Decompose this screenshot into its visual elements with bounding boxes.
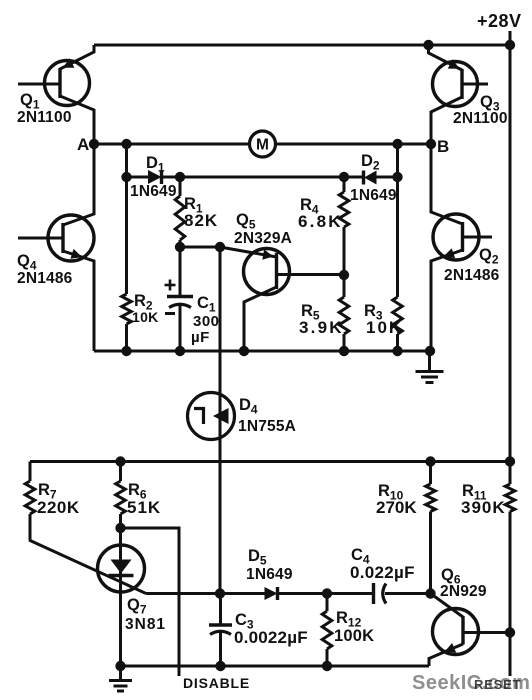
svg-text:2N929: 2N929	[440, 583, 487, 600]
label 1N755A	[238, 418, 296, 435]
junction: Q5 base / R4-R5 node	[339, 270, 349, 280]
resistor R2	[122, 294, 132, 351]
svg-text:300: 300	[193, 313, 220, 330]
label R10	[378, 482, 404, 503]
junction: node B	[426, 139, 436, 149]
svg-text:2N1100: 2N1100	[453, 110, 508, 127]
wire: top +28V rail	[94, 44, 510, 47]
resistor R4	[339, 177, 349, 275]
wire: bottom rail	[121, 665, 430, 668]
svg-text:2N1100: 2N1100	[17, 109, 72, 126]
svg-text:3.9K: 3.9K	[299, 318, 344, 337]
label 6.8K	[298, 212, 343, 231]
wire: diode line middle	[180, 176, 344, 179]
wire: A to motor	[94, 143, 250, 146]
svg-text:270K: 270K	[376, 498, 417, 517]
svg-text:D1: D1	[146, 154, 165, 175]
svg-text:2N1486: 2N1486	[444, 267, 500, 284]
junction: rail meets +28V rail	[505, 456, 515, 466]
label 2N1486 (Q4)	[17, 270, 73, 287]
wire: right +28V rail	[509, 45, 512, 462]
label R3	[364, 302, 383, 323]
resistor R1	[175, 177, 185, 247]
label Q4	[17, 252, 37, 273]
resistor R5	[339, 275, 349, 351]
svg-text:2N329A: 2N329A	[234, 230, 292, 247]
diode D1	[127, 170, 181, 184]
svg-text:RESET: RESET	[474, 677, 521, 692]
label R2	[134, 292, 153, 313]
label R5	[301, 302, 320, 323]
junction: +28V rail corner	[505, 40, 515, 50]
label R4	[300, 196, 319, 217]
capacitor C3	[209, 594, 232, 667]
label R12	[336, 609, 362, 630]
label 0.022uF	[350, 563, 415, 582]
junction: R5 at ground rail	[339, 346, 349, 356]
svg-text:Q2: Q2	[479, 246, 499, 267]
svg-text:D5: D5	[248, 547, 267, 568]
resistor R10	[426, 462, 436, 594]
svg-text:0.0022µF: 0.0022µF	[234, 628, 308, 647]
label 3N81	[125, 616, 166, 633]
transistor Q6	[429, 594, 510, 667]
svg-text:C1: C1	[197, 294, 216, 315]
label R1	[184, 195, 203, 216]
transistor Q1	[18, 45, 94, 144]
zener diode D4	[188, 393, 235, 440]
label R11	[462, 482, 487, 503]
junction: D4 / C3 / D5 node	[215, 588, 225, 598]
junction: D5 / R12 / C4 node	[322, 588, 332, 598]
label 1N649 (D5)	[246, 566, 293, 583]
svg-text:1N755A: 1N755A	[238, 418, 296, 435]
junction: D2/R3 column at B line	[392, 139, 402, 149]
label 51K	[127, 498, 161, 517]
label 82K	[184, 211, 218, 230]
wire: motor to B	[275, 143, 431, 146]
wire: right rail to RESET	[509, 512, 512, 677]
wire: lower section top rail	[30, 460, 510, 463]
svg-text:D4: D4	[239, 396, 258, 417]
svg-text:82K: 82K	[184, 211, 218, 230]
junction: D1 anode	[121, 172, 131, 182]
transistor Q3	[429, 45, 489, 144]
label D2	[361, 152, 380, 173]
junction: Q5 collector at ground rail	[239, 346, 249, 356]
junction: node A	[89, 139, 99, 149]
label Q2	[479, 246, 499, 267]
svg-text:µF: µF	[191, 329, 210, 346]
svg-text:Q5: Q5	[236, 211, 256, 232]
wire: DISABLE branch	[121, 528, 180, 676]
label Q3	[480, 93, 500, 114]
label DISABLE	[183, 675, 250, 691]
svg-text:DISABLE: DISABLE	[183, 675, 250, 691]
motor M	[250, 131, 276, 157]
label RESET	[474, 677, 521, 692]
capacitor C1	[165, 247, 194, 351]
svg-text:+28V: +28V	[477, 11, 522, 31]
junction: R4 top	[339, 172, 349, 182]
wire: upper ground rail	[94, 350, 430, 353]
junction: D1/R2 column at A line	[121, 139, 131, 149]
svg-text:10K: 10K	[366, 318, 403, 337]
svg-text:0.022µF: 0.022µF	[350, 563, 415, 582]
+28V terminal stub	[509, 31, 512, 45]
svg-text:B: B	[437, 137, 449, 156]
junction: C4 / R10 / Q6 base node	[425, 588, 435, 598]
wire: D1/R2 column	[125, 144, 128, 294]
junction: R12 bottom at rail	[322, 661, 332, 671]
label D5	[248, 547, 267, 568]
svg-text:2N1486: 2N1486	[17, 270, 73, 287]
label C1	[197, 294, 216, 315]
wire: D2/R3 column	[396, 144, 399, 297]
diode D2	[344, 171, 398, 185]
watermark SeekIC.com	[412, 672, 530, 694]
transistor Q7	[29, 528, 146, 666]
label 270K	[376, 498, 417, 517]
svg-text:390K: 390K	[461, 498, 506, 517]
node A label	[77, 135, 89, 154]
label 2N329A	[234, 230, 292, 247]
junction: C1 at ground rail	[175, 346, 185, 356]
wire: R1 node to Q5 emitter node	[180, 246, 220, 249]
junction: R10 top	[425, 456, 435, 466]
junction: Q7 cathode at bottom rail	[115, 661, 125, 671]
junction: Q2 emitter at ground rail	[425, 346, 435, 356]
junction: R6 bottom / Q7 top	[115, 523, 125, 533]
label R6	[128, 481, 147, 502]
svg-text:10K: 10K	[132, 309, 159, 325]
junction: D2 anode / R3 top	[392, 172, 402, 182]
label 0.0022uF	[234, 628, 308, 647]
label 390K	[461, 498, 506, 517]
wire: D4 column	[219, 247, 222, 594]
transistor Q4	[18, 144, 94, 351]
resistor R3	[393, 297, 403, 351]
svg-text:100K: 100K	[334, 627, 374, 645]
ground symbol (upper)	[416, 351, 444, 383]
svg-text:M: M	[256, 137, 269, 154]
junction: Q3 emitter at top rail	[423, 40, 433, 50]
svg-text:3N81: 3N81	[125, 616, 166, 633]
label C4	[351, 546, 370, 567]
transistor Q5	[220, 247, 344, 351]
ground symbol (lower)	[109, 666, 132, 691]
label 2N1100 (Q3)	[453, 110, 508, 127]
transistor Q2	[431, 144, 492, 351]
label 2N929	[440, 583, 487, 600]
label Q5	[236, 211, 256, 232]
label 10K (R2)	[132, 309, 159, 325]
resistor R6	[116, 462, 126, 529]
junction: Q6 collector at right rail	[505, 627, 515, 637]
junction: C3 bottom at rail	[215, 661, 225, 671]
label R7	[38, 481, 57, 502]
svg-text:1N649: 1N649	[246, 566, 293, 583]
junction: R2 at ground rail	[121, 346, 131, 356]
label 2N1100 (Q1)	[17, 109, 72, 126]
label 2N1486 (Q2)	[444, 267, 500, 284]
label uF	[191, 329, 210, 346]
svg-text:Q7: Q7	[127, 596, 147, 617]
junction: R3 at ground rail	[392, 346, 402, 356]
junction: D1 cathode / R1 top	[175, 172, 185, 182]
junction: R6 top	[115, 456, 125, 466]
label 1N649 (D2)	[350, 187, 397, 204]
label 220K	[37, 498, 80, 517]
wire: Q7 output to C3 node	[146, 592, 220, 595]
label 100K	[334, 627, 374, 645]
label D4	[239, 396, 258, 417]
resistor R12	[322, 594, 332, 667]
junction: Q5 emitter node	[215, 242, 225, 252]
node B label	[437, 137, 449, 156]
label 3.9K	[299, 318, 344, 337]
label D1	[146, 154, 165, 175]
junction: R1 bottom / C1 top	[175, 242, 185, 252]
+28V supply label	[477, 11, 522, 31]
svg-text:D2: D2	[361, 152, 380, 173]
svg-text:A: A	[77, 135, 89, 154]
label 1N649 (D1)	[130, 183, 177, 200]
svg-text:220K: 220K	[37, 498, 80, 517]
svg-text:6.8K: 6.8K	[298, 212, 343, 231]
svg-text:1N649: 1N649	[130, 183, 177, 200]
capacitor C4	[327, 583, 431, 604]
label Q7	[127, 596, 147, 617]
label Q1	[20, 91, 40, 112]
label 300	[193, 313, 220, 330]
diode D5	[220, 587, 327, 600]
label Q6	[441, 566, 461, 587]
label C3	[235, 611, 254, 632]
resistor R11	[505, 462, 515, 512]
label 10K (R3)	[366, 318, 403, 337]
svg-text:1N649: 1N649	[350, 187, 397, 204]
resistor R7	[25, 462, 35, 541]
svg-text:51K: 51K	[127, 498, 161, 517]
